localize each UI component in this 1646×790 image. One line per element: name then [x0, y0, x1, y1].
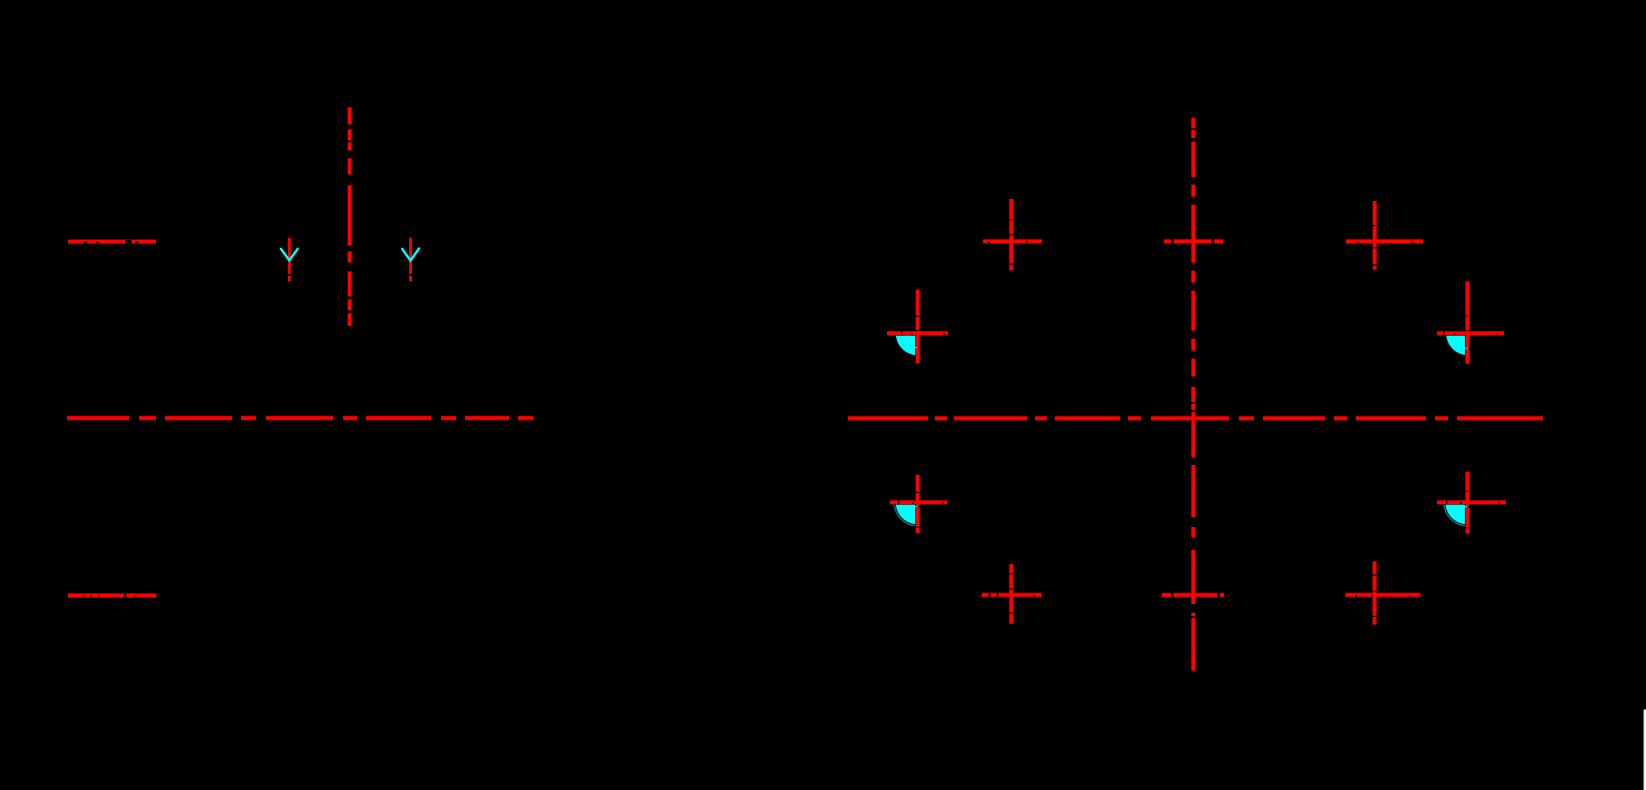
red centerline work: halo pass (soft edge) [67, 107, 1543, 670]
counterbore quarter pie at hole D (lower-left quadrant fill) [896, 333, 918, 355]
window edge artifact (white bar, bottom-right) [1644, 710, 1646, 790]
red centerline work: core pass [67, 107, 1543, 670]
counterbore arc outline at hole G [1444, 502, 1468, 526]
counterbore quarter pie at hole E (lower-left quadrant fill) [1446, 333, 1468, 355]
counterbore quarter pie at hole G (lower-left quadrant fill) [1445, 502, 1467, 524]
counterbore arc outline at hole F [894, 502, 918, 526]
counterbore quarter pie at hole F (lower-left quadrant fill) [896, 502, 918, 524]
dimension arrowhead 1 (cyan open arrow, pointing down) [281, 249, 298, 260]
dimension arrowhead 2 (cyan open arrow, pointing down) [402, 249, 419, 261]
